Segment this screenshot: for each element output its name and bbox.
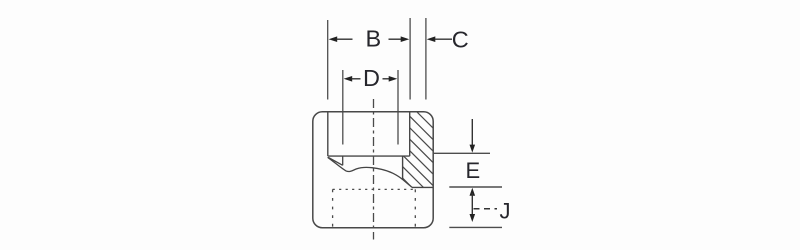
svg-text:B: B (365, 26, 381, 52)
hidden bore top (333, 188, 416, 190)
dimension D arrow right (383, 76, 398, 82)
extension line C (425, 18, 427, 100)
svg-text:E: E (465, 158, 480, 183)
dimension J arrow up (470, 188, 476, 196)
hidden bore left (332, 189, 334, 227)
bore chamfer left (328, 158, 342, 166)
svg-text:D: D (363, 65, 380, 91)
extension line B left (327, 20, 329, 100)
leader J (474, 208, 498, 210)
svg-text:C: C (452, 27, 469, 53)
extension line D right (397, 70, 399, 145)
extension line E bottom (449, 186, 502, 188)
section bottom edge (412, 186, 433, 188)
dimension E arrow down (470, 119, 476, 153)
dimension D arrow left (344, 76, 361, 82)
section hatching (395, 79, 445, 233)
socket bore wall left (327, 112, 329, 156)
centerline (373, 99, 375, 240)
extension line E top (433, 152, 490, 154)
extension line D left (342, 70, 344, 145)
dimension B arrow left (329, 36, 353, 42)
bore wall right (402, 156, 404, 180)
socket shoulder (328, 155, 410, 157)
extension line J bottom (449, 226, 502, 228)
socket bore wall right (409, 112, 411, 156)
body outline (313, 112, 433, 228)
dimension C arrow (427, 36, 452, 42)
dimension J shaft (471, 193, 473, 216)
bore wall stub left (342, 156, 344, 165)
dimension B arrow right (389, 36, 410, 42)
dimension J arrow down (470, 214, 476, 222)
hidden bore right (414, 189, 416, 227)
break line (328, 157, 412, 187)
svg-text:J: J (500, 198, 511, 223)
extension line B right (409, 18, 411, 100)
